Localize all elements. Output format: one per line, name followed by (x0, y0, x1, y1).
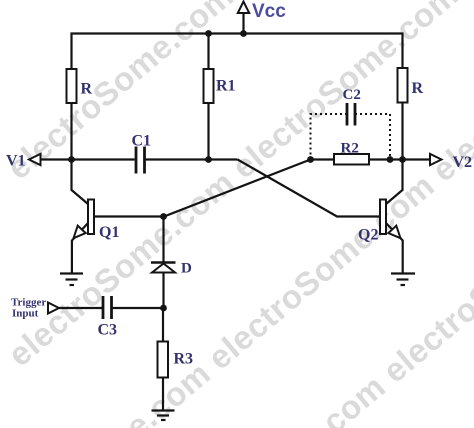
wire R1 branch upper (207, 34, 209, 70)
wire Q1 base diagonal to R2 node (94, 160, 311, 217)
wire left R branch upper (70, 33, 72, 70)
resistor R2 (334, 154, 369, 165)
resistor R3 (158, 342, 169, 378)
wire Q1 collector (72, 160, 89, 205)
wire left R branch lower (70, 103, 72, 160)
V2 arrow (430, 154, 442, 165)
svg-text:V2: V2 (453, 154, 473, 171)
resistor R (right) (398, 68, 408, 103)
watermark row bottom (0, 180, 474, 428)
wire node to R3 (162, 308, 164, 342)
wire R2 left lead (311, 158, 335, 160)
ground Q2 (391, 274, 415, 286)
wire Vcc stem (242, 12, 244, 34)
dotted wire C2 right (355, 114, 390, 160)
svg-text:D: D (181, 261, 192, 277)
resistor R (left) (67, 69, 77, 103)
junction dot C1-R1 node (205, 156, 212, 163)
wire R1 branch lower (207, 103, 209, 160)
transistor Q2 base bar (380, 200, 386, 235)
dotted wire C2 left (311, 114, 348, 160)
wire V1 to C1 (41, 158, 135, 160)
svg-text:R: R (412, 80, 424, 97)
transistor Q1 base bar (88, 200, 94, 235)
svg-text:R: R (81, 81, 93, 98)
diode D cathode bar (151, 261, 176, 263)
ground R3 (152, 411, 175, 421)
diode D triangle (152, 264, 175, 273)
svg-text:C1: C1 (132, 133, 152, 150)
svg-text:Vcc: Vcc (252, 1, 286, 22)
junction dot trigger node (160, 305, 167, 312)
wire R3 to ground (162, 378, 164, 411)
svg-text:Q1: Q1 (99, 224, 119, 241)
wire diagonal node to Q2 base (238, 160, 381, 217)
junction dot rail-R1 (205, 30, 212, 37)
wire diode upper (162, 217, 164, 263)
junction dot V2 node (399, 156, 406, 163)
wire Q1 emitter (72, 223, 88, 274)
V1 arrow (29, 154, 41, 165)
wire Q2 collector (386, 160, 403, 205)
wire top rail (71, 32, 404, 34)
wire C1 to node (146, 158, 238, 160)
junction dot V1 node (68, 156, 75, 163)
resistor R1 (204, 69, 214, 103)
wire C3 to node (113, 307, 164, 309)
svg-text:C2: C2 (343, 87, 361, 103)
wire R2 right lead to V2 (369, 158, 432, 160)
svg-text:R2: R2 (341, 141, 359, 157)
junction dot R2 left node (307, 156, 314, 163)
svg-text:C3: C3 (98, 322, 118, 339)
capacitor C3 plates (102, 296, 105, 319)
junction dot C2 right node (387, 156, 394, 163)
transistor Q1 emitter arrow (74, 226, 86, 239)
wire right R branch upper (401, 33, 403, 69)
svg-text:R3: R3 (174, 351, 194, 368)
trigger input arrow (48, 303, 59, 314)
junction dot Q1 base-diode node (160, 213, 167, 220)
junction dot rail-Vcc (240, 30, 247, 37)
wire right R branch lower (401, 103, 403, 161)
wire diode lower (162, 273, 164, 309)
transistor Q2 emitter arrow (388, 226, 400, 239)
watermark row top (0, 0, 474, 187)
svg-text:Q2: Q2 (358, 227, 378, 244)
capacitor C2 plates (346, 103, 349, 126)
Vcc arrow (238, 2, 249, 14)
svg-text:V1: V1 (6, 153, 26, 170)
wire trigger to C3 (59, 307, 102, 309)
svg-text:R1: R1 (216, 78, 236, 95)
capacitor C1 plates (135, 147, 138, 174)
wire Q2 emitter (386, 223, 403, 274)
svg-text:Input: Input (12, 308, 39, 320)
ground Q1 (60, 274, 83, 286)
